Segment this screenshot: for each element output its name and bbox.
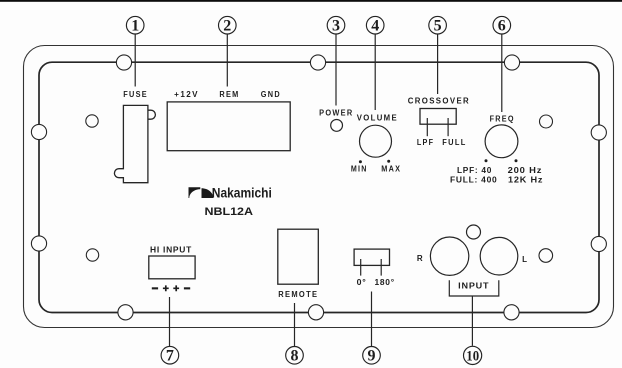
terminal block bbox=[167, 102, 290, 151]
svg-text:5: 5 bbox=[434, 18, 442, 35]
label 0 deg bbox=[357, 278, 367, 287]
label GND bbox=[261, 90, 281, 99]
leader line 6 bbox=[501, 34, 503, 112]
mounting hole right-upper bbox=[591, 125, 606, 140]
label FULL: 400 12K Hz bbox=[450, 176, 543, 185]
Nakamichi wordmark bbox=[212, 186, 272, 201]
mounting hole bottom-left bbox=[118, 305, 133, 320]
crossover pin FULL bbox=[447, 118, 449, 136]
label FREQ bbox=[490, 115, 515, 124]
freq right dot bbox=[515, 159, 518, 162]
label CROSSOVER bbox=[408, 96, 470, 105]
svg-text:REM: REM bbox=[219, 90, 239, 99]
crossover pin LPF bbox=[426, 118, 428, 136]
label LPF: 40 200 Hz bbox=[457, 166, 542, 175]
callout 9 bbox=[363, 347, 381, 365]
mounting hole left-lower bbox=[31, 236, 46, 251]
label FULL bbox=[442, 138, 466, 147]
label +12V bbox=[174, 90, 199, 99]
freq left dot bbox=[485, 159, 488, 162]
mounting hole right-lower bbox=[591, 236, 606, 251]
label L bbox=[522, 255, 528, 264]
svg-text:LPF: LPF bbox=[417, 138, 434, 147]
input bracket bbox=[449, 280, 499, 296]
svg-text:MAX: MAX bbox=[381, 164, 401, 173]
label INPUT bbox=[458, 282, 489, 291]
mounting hole bottom-middle bbox=[308, 305, 323, 320]
leader line 1 bbox=[134, 34, 136, 86]
svg-text:LPF: 40: LPF: 40 bbox=[457, 166, 492, 175]
svg-text:FULL: 400: FULL: 400 bbox=[450, 176, 498, 185]
svg-text:10: 10 bbox=[466, 349, 479, 365]
label MIN bbox=[351, 164, 368, 173]
crossover switch bbox=[420, 109, 456, 125]
mounting hole left-upper bbox=[31, 124, 46, 139]
leader line 7 bbox=[169, 297, 171, 346]
svg-text:R: R bbox=[417, 254, 424, 263]
mounting hole top-middle bbox=[310, 55, 325, 70]
svg-text:1: 1 bbox=[131, 18, 139, 35]
callout 1 bbox=[126, 16, 144, 34]
top border bar bbox=[0, 0, 622, 2]
svg-text:NBL12A: NBL12A bbox=[205, 206, 254, 218]
svg-text:12K Hz: 12K Hz bbox=[508, 176, 543, 185]
volume knob bbox=[360, 125, 392, 157]
rca jack L bbox=[480, 237, 518, 275]
svg-text:HI INPUT: HI INPUT bbox=[150, 245, 192, 254]
svg-text:POWER: POWER bbox=[319, 109, 353, 118]
volume max dot bbox=[387, 160, 390, 163]
svg-text:FUSE: FUSE bbox=[123, 90, 148, 99]
svg-text:L: L bbox=[522, 255, 528, 264]
svg-text:GND: GND bbox=[261, 90, 281, 99]
phase pin 180 bbox=[380, 259, 382, 276]
svg-text:9: 9 bbox=[368, 348, 376, 365]
polarity marks - + + - bbox=[152, 285, 190, 291]
callout 5 bbox=[429, 16, 447, 34]
callout 2 bbox=[219, 16, 237, 34]
svg-text:3: 3 bbox=[332, 18, 340, 35]
svg-text:MIN: MIN bbox=[351, 164, 368, 173]
svg-text:4: 4 bbox=[371, 18, 379, 35]
svg-text:CROSSOVER: CROSSOVER bbox=[408, 96, 470, 105]
callout 3 bbox=[327, 16, 345, 34]
svg-text:200 Hz: 200 Hz bbox=[508, 166, 543, 175]
svg-text:Nakamichi: Nakamichi bbox=[212, 186, 272, 201]
power LED bbox=[331, 120, 343, 132]
screw hole bottom-right bbox=[539, 249, 553, 263]
mounting hole top-right bbox=[504, 55, 519, 70]
svg-text:6: 6 bbox=[498, 18, 506, 35]
label HI INPUT bbox=[150, 245, 192, 254]
label VOLUME bbox=[357, 114, 398, 123]
mounting hole top-left bbox=[116, 55, 131, 70]
svg-text:0°: 0° bbox=[357, 278, 367, 287]
svg-text:7: 7 bbox=[166, 348, 174, 365]
leader line 5 bbox=[437, 34, 439, 94]
callout 4 bbox=[366, 16, 384, 34]
svg-text:180°: 180° bbox=[375, 278, 395, 287]
svg-text:FREQ: FREQ bbox=[490, 115, 515, 124]
remote jack bbox=[278, 229, 319, 284]
label R bbox=[417, 254, 424, 263]
panel outer outline bbox=[24, 46, 614, 328]
svg-text:2: 2 bbox=[223, 18, 231, 35]
label MAX bbox=[381, 164, 401, 173]
label NBL12A bbox=[205, 206, 254, 218]
freq knob bbox=[485, 125, 518, 158]
screw hole top-right bbox=[540, 115, 553, 128]
label LPF bbox=[417, 138, 434, 147]
screw hole top-left bbox=[86, 115, 98, 127]
label REMOTE bbox=[278, 290, 318, 299]
leader line 3 bbox=[335, 34, 337, 105]
hi input connector bbox=[149, 256, 195, 279]
label 180 deg bbox=[375, 278, 395, 287]
phase switch bbox=[354, 249, 389, 265]
callout 10 bbox=[464, 346, 482, 364]
callout 7 bbox=[161, 346, 179, 364]
screw hole between rca bbox=[467, 225, 481, 239]
svg-text:8: 8 bbox=[291, 348, 299, 365]
fuse holder bbox=[114, 105, 155, 182]
volume min dot bbox=[359, 160, 362, 163]
svg-text:FULL: FULL bbox=[442, 138, 466, 147]
leader line 2 bbox=[226, 34, 228, 86]
leader line 8 bbox=[294, 303, 296, 346]
callout 6 bbox=[493, 16, 511, 34]
leader line 4 bbox=[374, 34, 376, 110]
svg-text:INPUT: INPUT bbox=[458, 282, 489, 291]
mounting hole bottom-right bbox=[504, 305, 519, 320]
callout 8 bbox=[286, 347, 304, 365]
svg-text:+12V: +12V bbox=[174, 90, 199, 99]
svg-text:REMOTE: REMOTE bbox=[278, 290, 318, 299]
screw hole bottom-left bbox=[86, 249, 98, 261]
label REM bbox=[219, 90, 239, 99]
leader line 9 bbox=[371, 292, 373, 347]
svg-text:VOLUME: VOLUME bbox=[357, 114, 398, 123]
Nakamichi logo mark bbox=[189, 187, 214, 198]
leader line 10 bbox=[471, 296, 473, 346]
phase pin 0 bbox=[360, 259, 362, 276]
label POWER bbox=[319, 109, 353, 118]
panel inner outline bbox=[39, 62, 599, 312]
label FUSE bbox=[123, 90, 148, 99]
rca jack R bbox=[430, 237, 468, 275]
